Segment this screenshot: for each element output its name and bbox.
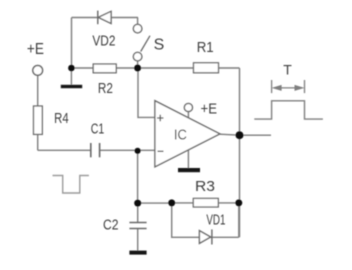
svg-text:R4: R4 bbox=[54, 110, 69, 127]
svg-text:VD1: VD1 bbox=[206, 212, 225, 229]
svg-text:R2: R2 bbox=[98, 80, 113, 97]
svg-text:VD2: VD2 bbox=[92, 32, 115, 49]
svg-text:S: S bbox=[154, 36, 165, 53]
svg-text:R1: R1 bbox=[197, 39, 214, 56]
svg-text:C1: C1 bbox=[91, 121, 105, 138]
svg-text:IC: IC bbox=[174, 127, 187, 144]
svg-text:T: T bbox=[283, 62, 292, 78]
svg-text:+E: +E bbox=[27, 41, 44, 58]
svg-text:R3: R3 bbox=[195, 178, 215, 195]
svg-text:+E: +E bbox=[201, 101, 218, 118]
svg-text:C2: C2 bbox=[103, 217, 119, 234]
